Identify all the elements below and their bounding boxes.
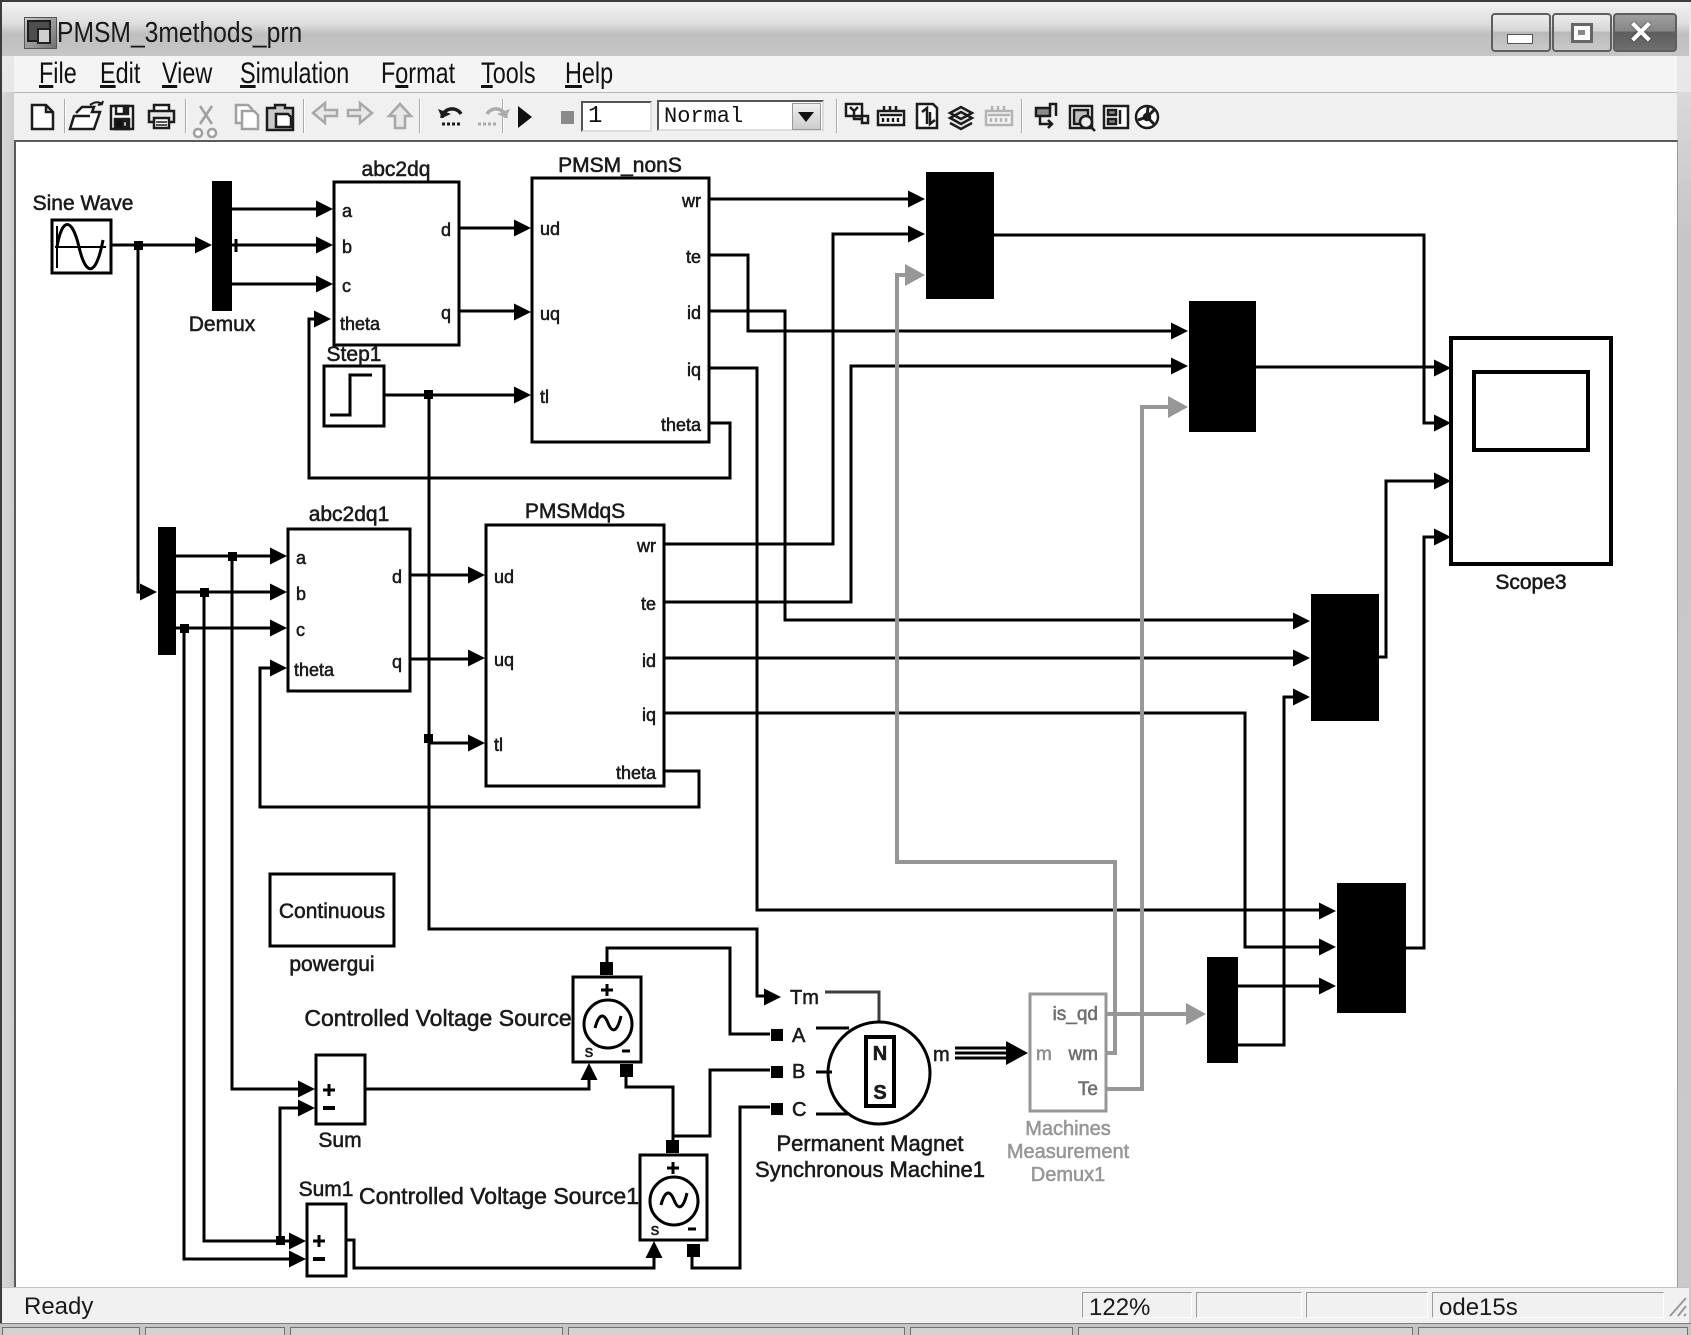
svg-text:Demux1: Demux1 [1031, 1164, 1105, 1186]
svg-text:Te: Te [1078, 1079, 1098, 1100]
block Mux3 [1311, 594, 1379, 721]
wire Step1 to PMSM_nonS tl [384, 394, 516, 397]
wire Controlled Voltage Source plus to machine A [607, 948, 770, 1034]
block Machines Measurement Demux1 [1007, 994, 1130, 1186]
svg-text:PMSMdqS: PMSMdqS [525, 500, 625, 523]
svg-text:Tm: Tm [790, 987, 819, 1009]
svg-text:Machines: Machines [1025, 1118, 1111, 1140]
svg-text:m: m [933, 1044, 950, 1066]
wire Demux3 out2 to Mux3 [1238, 697, 1295, 1045]
block Sine Wave [33, 192, 134, 273]
svg-text:s: s [651, 1220, 660, 1239]
block Controlled Voltage Source [304, 962, 641, 1077]
wire machine m to Machines Measurement Demux1 (triple line) [955, 1041, 1028, 1065]
svg-text:abc2dq: abc2dq [362, 158, 431, 181]
wire PMSMdqS id to Mux3 [664, 657, 1295, 660]
wire Step1 branch down to tl and Tm [429, 395, 766, 996]
wire Demux2 out a to abc2dq1 a [176, 555, 272, 558]
svg-text:iq: iq [687, 360, 701, 380]
svg-text:q: q [392, 652, 402, 672]
wire Sine Wave to Demux [111, 244, 197, 247]
wire Sum out to Controlled Voltage Source s [365, 1078, 589, 1089]
block Demux3 [1207, 957, 1238, 1063]
svg-text:Step1: Step1 [327, 343, 382, 366]
wire Controlled Voltage Source1 minus to machine C [692, 1107, 770, 1268]
svg-text:b: b [296, 584, 306, 604]
svg-text:a: a [342, 201, 353, 221]
wire b junction up to Sum minus [280, 1108, 300, 1241]
block PMSM_nonS [532, 154, 709, 442]
wire PMSM_nonS iq to Mux4 [709, 368, 1321, 910]
wire abc2dq d to PMSM_nonS ud [459, 227, 516, 230]
wire c branch to Sum1 minus [184, 628, 292, 1259]
wire PMSM_nonS te to Mux2 [709, 255, 1173, 331]
right icon cluster [846, 104, 972, 129]
wire PMSM_nonS id to Mux3 [709, 311, 1295, 620]
block powergui [270, 874, 394, 976]
svg-text:theta: theta [616, 763, 657, 783]
wire Controlled Voltage Source minus to B and CVS1 plus [626, 1070, 770, 1140]
svg-text:C: C [792, 1099, 806, 1121]
node junction c branch [180, 624, 189, 633]
svg-text:wr: wr [636, 536, 656, 556]
svg-text:Sum1: Sum1 [299, 1178, 354, 1201]
svg-text:c: c [342, 276, 351, 296]
svg-text:tl: tl [540, 387, 549, 407]
wire PMSMdqS theta loop to abc2dq1 theta [260, 668, 699, 807]
block Sum [316, 1055, 365, 1152]
block Sum1 [299, 1178, 354, 1276]
wire Mux4 out to Scope3 in4 [1406, 537, 1436, 948]
svg-text:id: id [642, 651, 656, 671]
svg-text:uq: uq [540, 304, 560, 324]
wire PMSMdqS te to Mux2 [664, 366, 1173, 602]
svg-text:uq: uq [494, 650, 514, 670]
wire Demux out c to abc2dq c [232, 283, 318, 286]
svg-text:abc2dq1: abc2dq1 [309, 503, 390, 526]
svg-text:theta: theta [661, 415, 702, 435]
wire PMSM_nonS theta loop to abc2dq theta [309, 319, 730, 478]
node junction sine-out [134, 241, 143, 250]
wire abc2dq q to PMSM_nonS uq [459, 310, 516, 313]
svg-text:Controlled Voltage Source1: Controlled Voltage Source1 [359, 1183, 639, 1209]
svg-text:Continuous: Continuous [279, 900, 385, 923]
node junction tl branch [424, 734, 433, 743]
block Mux1 [926, 172, 994, 299]
svg-text:S: S [873, 1082, 886, 1104]
svg-text:ud: ud [494, 567, 514, 587]
node junction on b branch [276, 1236, 285, 1245]
arrow into Demux [195, 237, 212, 254]
wire Demux2 out c to abc2dq1 c [176, 627, 272, 630]
svg-text:d: d [441, 220, 451, 240]
svg-text:q: q [441, 303, 451, 323]
wire Mux3 out to Scope3 in3 [1379, 481, 1436, 657]
svg-text:Permanent Magnet: Permanent Magnet [776, 1131, 963, 1156]
svg-text:tl: tl [494, 735, 503, 755]
svg-text:m: m [1036, 1044, 1052, 1065]
wire Demux out b to abc2dq b [232, 244, 318, 247]
node junction b branch [200, 588, 209, 597]
svg-text:ud: ud [540, 219, 560, 239]
block Controlled Voltage Source1 [359, 1140, 707, 1257]
wire Demux out a to abc2dq a [232, 208, 318, 211]
wire PMSMdqS wr to Mux1 [664, 234, 910, 544]
svg-text:d: d [392, 567, 402, 587]
wire Sum1 out to Controlled Voltage Source1 s [346, 1240, 654, 1268]
node junction a branch [228, 552, 237, 561]
svg-text:theta: theta [340, 314, 381, 334]
node junction Step1 out [424, 390, 433, 399]
svg-text:Scope3: Scope3 [1495, 571, 1566, 594]
node tick on b wire [235, 239, 238, 252]
undo / redo [442, 109, 461, 118]
block Mux4 [1337, 883, 1406, 1013]
wire Te to Mux2 (gray) [1106, 407, 1169, 1089]
wire PMSM_nonS wr to Mux1 [709, 198, 910, 201]
block Mux2 [1189, 301, 1256, 432]
block Scope3 [1451, 338, 1611, 594]
play / stop [518, 106, 532, 128]
svg-text:Measurement: Measurement [1007, 1141, 1130, 1163]
svg-text:s: s [585, 1042, 594, 1061]
wire b branch to Sum1 plus [204, 592, 292, 1241]
svg-text:te: te [686, 247, 701, 267]
block Step1 [324, 343, 384, 426]
wire Demux3 out1 to Mux4 [1238, 985, 1321, 988]
wire PMSMdqS iq to Mux4 [664, 713, 1321, 947]
block abc2dq [334, 158, 459, 345]
svg-text:Sine Wave: Sine Wave [33, 192, 134, 215]
svg-text:iq: iq [642, 705, 656, 725]
svg-text:Sum: Sum [318, 1129, 361, 1152]
wire Sine junction down to Demux2 [138, 245, 142, 592]
svg-text:te: te [641, 594, 656, 614]
wire Mux1 out to Scope3 in2 [994, 235, 1436, 423]
wire a branch to Sum plus [232, 556, 300, 1089]
svg-text:a: a [296, 548, 307, 568]
svg-text:Demux: Demux [189, 313, 256, 336]
svg-text:Synchronous Machine1: Synchronous Machine1 [755, 1157, 985, 1182]
svg-text:is_qd: is_qd [1053, 1004, 1098, 1025]
wire wm to Mux1 (gray) [897, 275, 1115, 1053]
block Demux (Demux1) [189, 181, 256, 336]
svg-text:c: c [296, 620, 305, 640]
wire abc2dq1 q to PMSMdqS uq [410, 658, 470, 661]
svg-text:b: b [342, 237, 352, 257]
svg-text:theta: theta [294, 660, 335, 680]
block PMSMdqS [486, 500, 664, 786]
svg-text:wr: wr [681, 191, 701, 211]
svg-text:Controlled Voltage Source: Controlled Voltage Source [304, 1005, 571, 1031]
svg-text:wm: wm [1067, 1044, 1098, 1065]
svg-text:B: B [792, 1061, 805, 1083]
svg-text:N: N [873, 1043, 887, 1065]
svg-text:PMSM_nonS: PMSM_nonS [558, 154, 682, 177]
wire abc2dq1 d to PMSMdqS ud [410, 574, 470, 577]
wire Demux2 out b to abc2dq1 b [176, 591, 272, 594]
svg-text:powergui: powergui [289, 953, 374, 976]
block abc2dq1 [288, 503, 410, 691]
wire branch to PMSMdqS tl [429, 742, 470, 745]
svg-text:A: A [792, 1025, 806, 1047]
block Demux2 [158, 527, 176, 655]
wire is_qd to Demux3 (gray) [1106, 1012, 1186, 1016]
wire Mux2 out to Scope3 in1 [1256, 366, 1436, 369]
block Permanent Magnet Synchronous Machine1 [755, 987, 985, 1182]
svg-text:id: id [687, 303, 701, 323]
